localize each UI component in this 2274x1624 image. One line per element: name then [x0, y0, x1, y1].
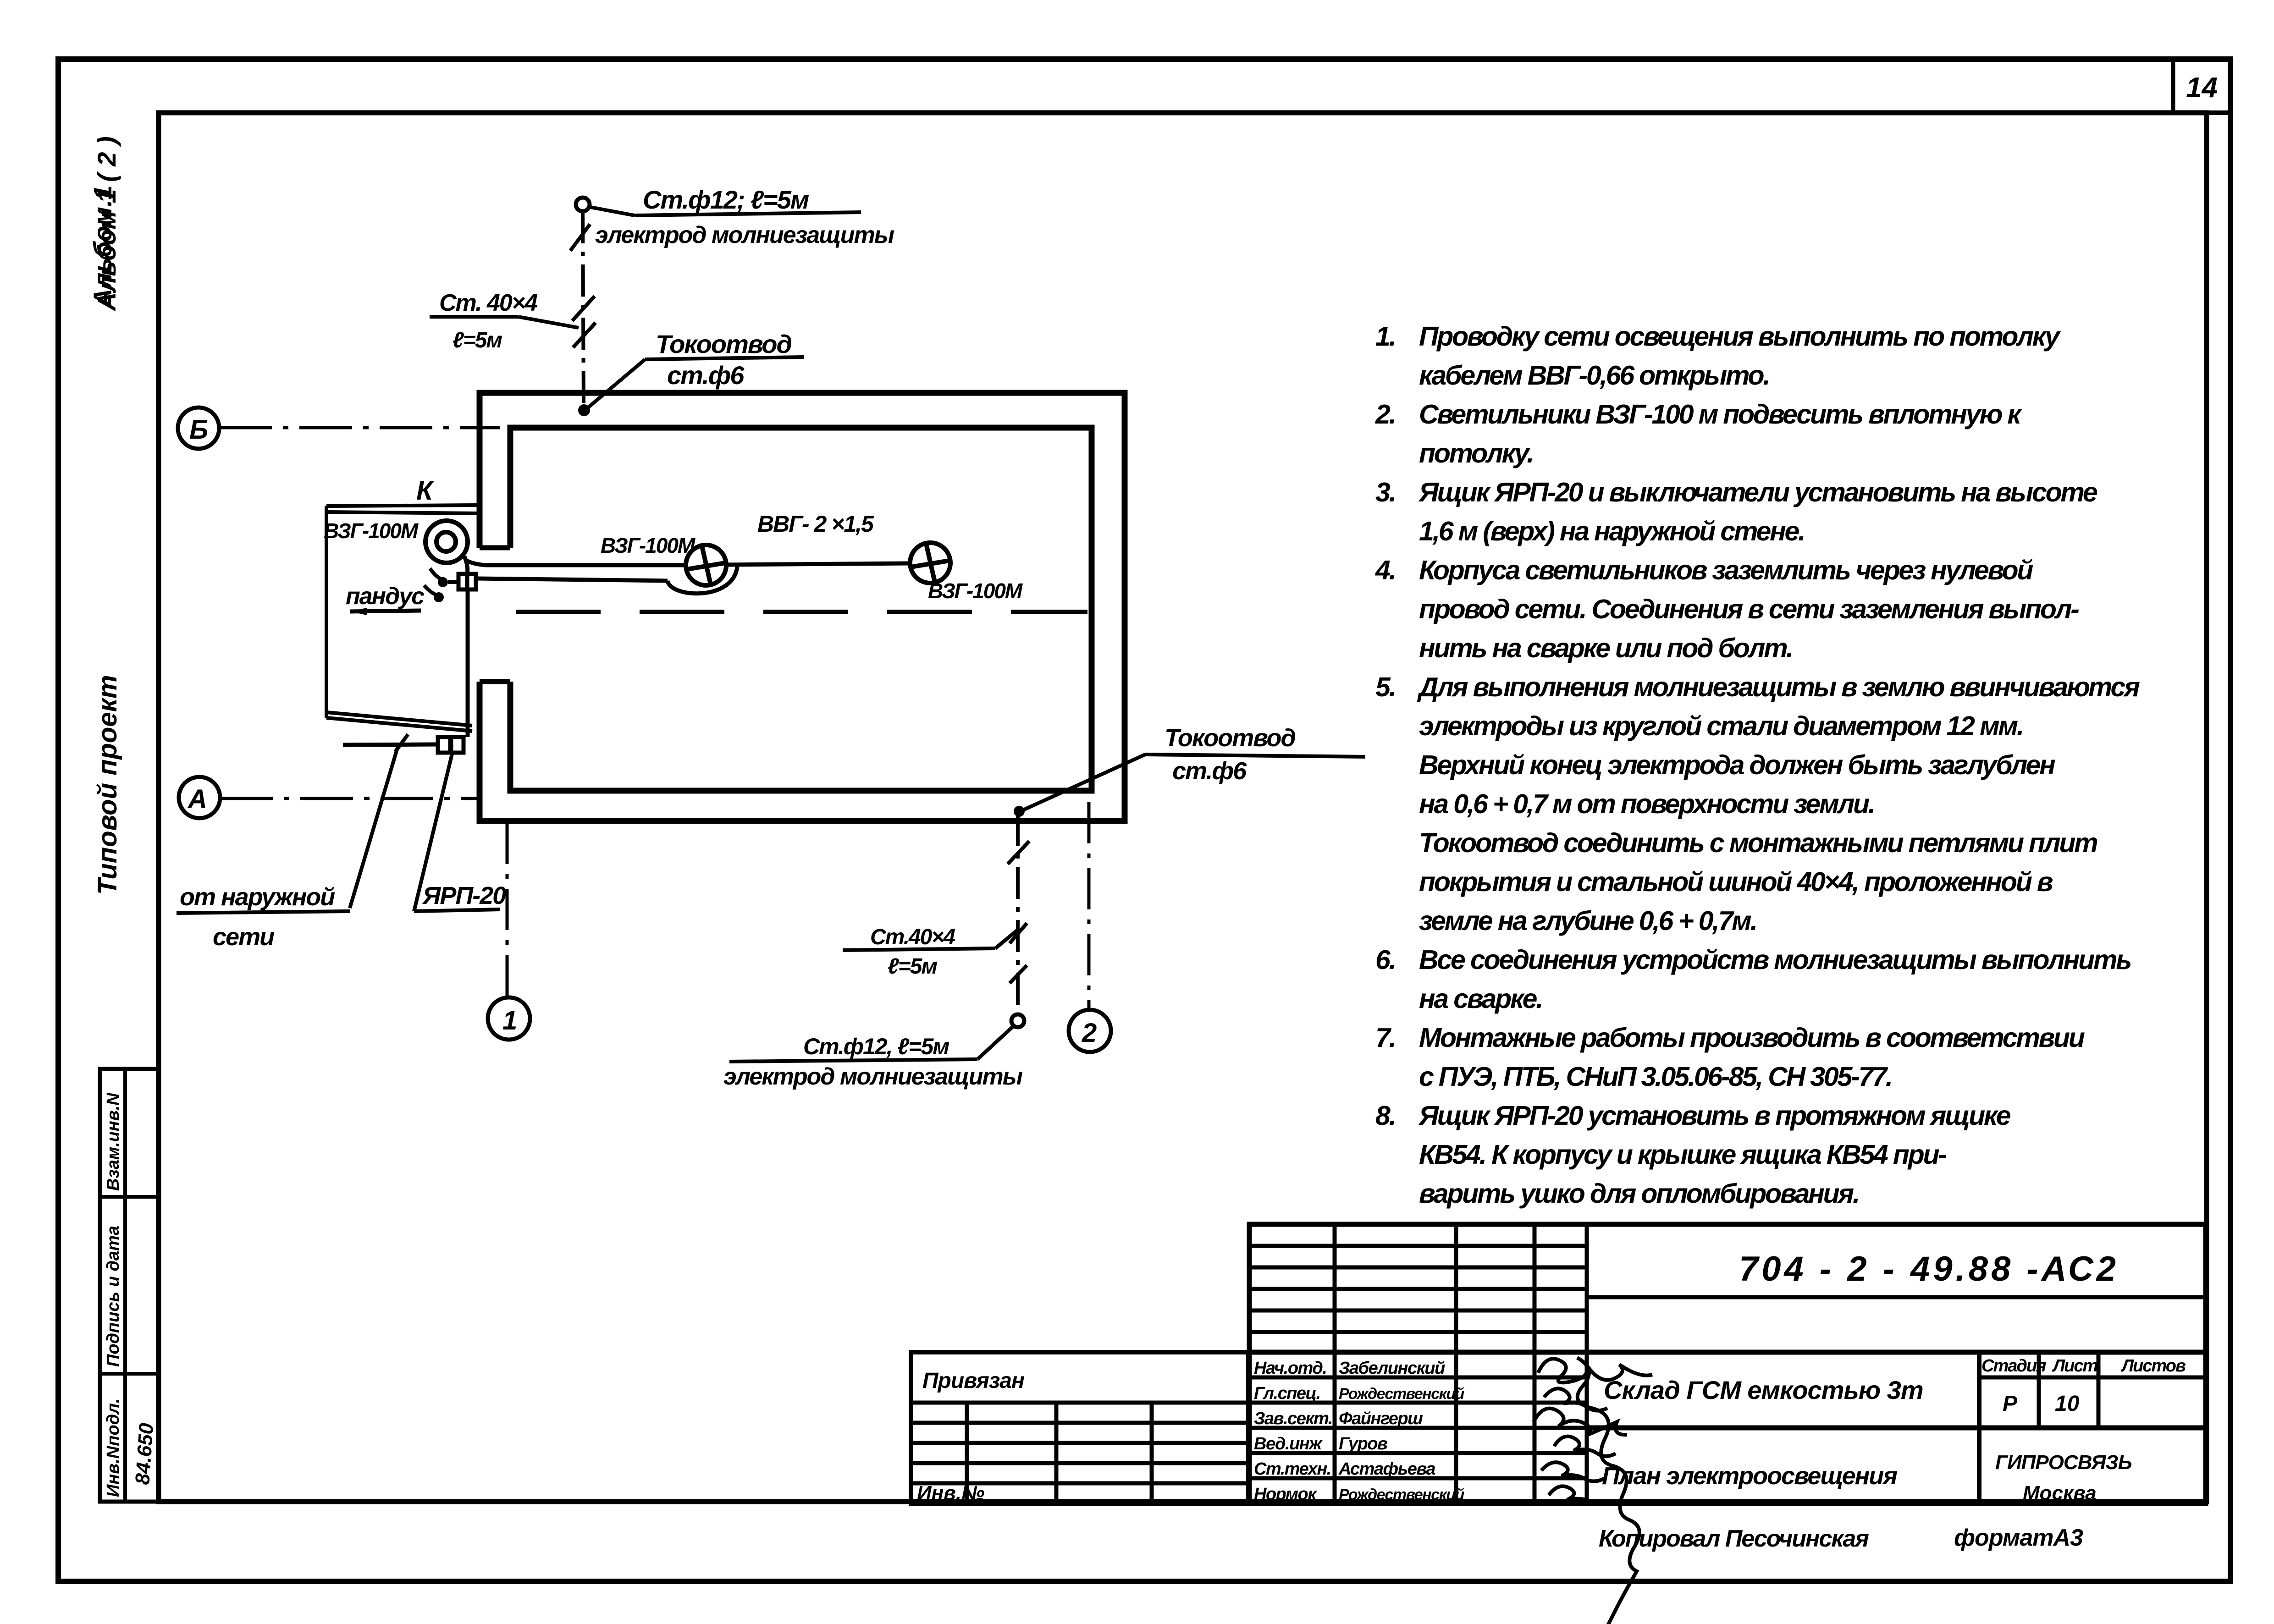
- doc number cell bottom: [1587, 1295, 2206, 1299]
- svg-text:земле на глубине 0,6 + 0,7м.: земле на глубине 0,6 + 0,7м.: [1419, 906, 1756, 936]
- svg-text:Инв.Nподл.: Инв.Nподл.: [104, 1398, 123, 1497]
- svg-text:Б: Б: [189, 415, 207, 445]
- left stamp block: [100, 1069, 159, 1502]
- axis Б line: [219, 426, 500, 429]
- svg-text:Токоотвод соединить с монтажны: Токоотвод соединить с монтажными петлями…: [1419, 828, 2097, 858]
- svg-text:Монтажные работы производить в: Монтажные работы производить в соответст…: [1419, 1023, 2085, 1053]
- svg-text:2.: 2.: [1375, 399, 1395, 429]
- switch dots: [438, 577, 448, 587]
- svg-text:от наружной: от наружной: [180, 883, 335, 911]
- svg-text:Листов: Листов: [2120, 1356, 2186, 1376]
- svg-text:Корпуса светильников заземлить: Корпуса светильников заземлить через нул…: [1419, 555, 2033, 585]
- switch box: [458, 574, 476, 589]
- tick bottom electrode 1: [1008, 841, 1029, 864]
- signatures: [1534, 1358, 1652, 1624]
- upper band bottom: [1249, 1350, 2206, 1355]
- svg-text:14: 14: [2186, 72, 2218, 104]
- svg-text:1: 1: [502, 1006, 516, 1035]
- svg-text:ВВГ- 2 ×1,5: ВВГ- 2 ×1,5: [757, 511, 874, 537]
- svg-text:84.650: 84.650: [131, 1422, 158, 1486]
- svg-text:Инв.№: Инв.№: [917, 1482, 984, 1504]
- svg-text:Рождественский: Рождественский: [1339, 1385, 1465, 1403]
- lamp 1 ВЗГ-100М: [686, 545, 726, 585]
- svg-text:Нормок: Нормок: [1254, 1485, 1317, 1504]
- svg-text:10: 10: [2055, 1392, 2080, 1416]
- svg-text:Ст.40×4: Ст.40×4: [870, 925, 955, 949]
- svg-text:7.: 7.: [1375, 1023, 1395, 1053]
- door jamb cap lower: [480, 679, 510, 684]
- svg-text:Ящик ЯРП-20 и выключатели уста: Ящик ЯРП-20 и выключатели установить на …: [1418, 477, 2097, 507]
- album margin note: [88, 136, 121, 312]
- пандус underline with arrow: [350, 611, 421, 611]
- svg-text:1.: 1.: [1375, 321, 1395, 352]
- svg-text:Для выполнения молниезащиты в: Для выполнения молниезащиты в землю ввин…: [1417, 672, 2140, 702]
- svg-text:6.: 6.: [1375, 945, 1395, 975]
- svg-text:А: А: [187, 784, 206, 814]
- incoming supply line: [343, 744, 438, 745]
- tick on top electrode: [570, 224, 590, 251]
- wire loop under lamp 1: [668, 567, 737, 594]
- wire top run to lamp 1: [466, 560, 685, 565]
- tick bottom electrode 3: [1010, 965, 1027, 983]
- svg-text:ℓ=5м: ℓ=5м: [453, 328, 502, 352]
- tick bottom electrode 2: [1010, 923, 1027, 943]
- bottom electrode conductor line: [1016, 814, 1020, 1014]
- svg-text:Верхний конец электрода должен: Верхний конец электрода должен быть загл…: [1419, 750, 2055, 780]
- right verticals: [1977, 1352, 1981, 1503]
- svg-text:ст.ф6: ст.ф6: [667, 361, 745, 390]
- connection dot on roof: [578, 404, 590, 416]
- svg-text:ЯРП-20: ЯРП-20: [422, 882, 506, 909]
- svg-text:5.: 5.: [1375, 672, 1395, 702]
- axis Б circle: [178, 407, 219, 449]
- svg-text:3.: 3.: [1375, 477, 1395, 507]
- svg-text:ℓ=5м: ℓ=5м: [888, 954, 938, 979]
- svg-text:сети: сети: [213, 923, 275, 951]
- room centerline: [516, 610, 1087, 614]
- wire lamp1 to lamp2: [725, 563, 910, 565]
- svg-text:Ст.ф12; ℓ=5м: Ст.ф12; ℓ=5м: [643, 185, 809, 214]
- revision grid rows: [1249, 1244, 1587, 1248]
- bottom conductor dot on wall: [1014, 806, 1025, 817]
- svg-text:Гуров: Гуров: [1339, 1434, 1387, 1453]
- svg-text:электрод молниезащиты: электрод молниезащиты: [595, 222, 894, 248]
- stage header row line: [1979, 1376, 2206, 1380]
- svg-text:Москва: Москва: [2023, 1482, 2097, 1504]
- svg-text:План электроосвещения: План электроосвещения: [1602, 1462, 1897, 1490]
- svg-text:ВЗГ-100М: ВЗГ-100М: [928, 579, 1023, 603]
- wire lamp to switch box: [464, 556, 468, 574]
- средняя линия титула: [1587, 1426, 2206, 1431]
- tick on top electrode 3: [573, 323, 596, 347]
- svg-text:кабелем ВВГ-0,66 открыто.: кабелем ВВГ-0,66 открыто.: [1419, 360, 1769, 391]
- svg-text:с ПУЭ, ПТБ, СНиП 3.05.06-85, С: с ПУЭ, ПТБ, СНиП 3.05.06-85, СН 305-77.: [1419, 1062, 1892, 1092]
- door jamb cap upper: [480, 545, 510, 551]
- svg-text:электрод молниезащиты: электрод молниезащиты: [723, 1063, 1023, 1090]
- tick on top electrode 2: [572, 296, 595, 321]
- svg-text:Астафьева: Астафьева: [1338, 1459, 1435, 1479]
- name rows: [1249, 1376, 1587, 1380]
- svg-text:Рождественский: Рождественский: [1339, 1486, 1465, 1503]
- svg-text:Альбом.1: Альбом.1: [88, 185, 117, 308]
- svg-text:Взам.инв.N: Взам.инв.N: [104, 1092, 123, 1191]
- ramp left edge: [325, 506, 328, 718]
- privyazan table: [911, 1352, 1248, 1503]
- sheet number cell divider: [2171, 59, 2175, 113]
- svg-text:Токоотвод: Токоотвод: [656, 330, 792, 358]
- svg-text:Зав.сект.: Зав.сект.: [1254, 1409, 1332, 1428]
- svg-text:Файнгерш: Файнгерш: [1339, 1409, 1423, 1428]
- svg-text:покрытия и стальной шиной 40×4: покрытия и стальной шиной 40×4, проложен…: [1419, 867, 2053, 897]
- svg-text:Проводку сети освещения выполн: Проводку сети освещения выполнить по пот…: [1419, 321, 2061, 352]
- lamp 2 ВЗГ-100М: [910, 543, 950, 583]
- svg-text:Вед.инж: Вед.инж: [1254, 1434, 1323, 1453]
- svg-text:1,6 м (верх) на наружной стене: 1,6 м (верх) на наружной стене.: [1419, 516, 1804, 546]
- svg-text:провод сети. Соединения в сет: провод сети. Соединения в сети заземлени…: [1419, 594, 2079, 624]
- svg-text:варить ушко для опломбирования: варить ушко для опломбирования.: [1419, 1178, 1859, 1209]
- svg-text:Стадия: Стадия: [1981, 1356, 2046, 1376]
- svg-text:электроды из круглой стали диа: электроды из круглой стали диаметром 12 …: [1419, 711, 2023, 741]
- building outer wall: [480, 393, 1125, 821]
- svg-text:потолку.: потолку.: [1419, 438, 1533, 468]
- svg-text:ст.ф6: ст.ф6: [1172, 757, 1247, 785]
- wall lamp ВЗГ-100М (double circle): [425, 521, 468, 563]
- svg-text:форматА3: форматА3: [1954, 1525, 2083, 1551]
- svg-text:Лист: Лист: [2052, 1356, 2097, 1376]
- svg-text:пандус: пандус: [346, 583, 425, 610]
- svg-text:8.: 8.: [1375, 1101, 1395, 1131]
- axis 2 line: [1087, 802, 1091, 1010]
- svg-text:ВЗГ-100М: ВЗГ-100М: [324, 519, 419, 543]
- svg-text:Подпись и дата: Подпись и дата: [104, 1226, 123, 1367]
- inner drawing frame: [159, 113, 2207, 1502]
- svg-text:нить на сварке или под болт.: нить на сварке или под болт.: [1419, 633, 1792, 663]
- bottom electrode circle: [1011, 1014, 1024, 1027]
- svg-text:Забелинский: Забелинский: [1339, 1359, 1445, 1378]
- svg-text:ВЗГ-100М: ВЗГ-100М: [601, 534, 696, 557]
- svg-text:Ящик ЯРП-20 установить в прот: Ящик ЯРП-20 установить в протяжном ящике: [1418, 1101, 2011, 1131]
- top band line: [157, 110, 2230, 115]
- svg-text:2: 2: [1082, 1018, 1097, 1048]
- supply entry double box ЯРП-20: [438, 737, 450, 753]
- svg-text:Ст.ф12, ℓ=5м: Ст.ф12, ℓ=5м: [803, 1034, 949, 1059]
- svg-text:Все соединения устройств молни: Все соединения устройств молниезащиты вы…: [1419, 945, 2130, 975]
- axis 1 circle: [488, 997, 530, 1040]
- ramp top edge double line: [326, 505, 480, 506]
- ramp bottom edge double line: [326, 712, 472, 726]
- svg-text:Ст.техн.: Ст.техн.: [1254, 1459, 1331, 1479]
- title block outline: [1249, 1224, 2206, 1503]
- axis А line: [220, 797, 478, 800]
- svg-text:КВ54. К корпусу и крышке ящик: КВ54. К корпусу и крышке ящика КВ54 при-: [1419, 1140, 1946, 1170]
- axis 1 line: [506, 823, 509, 997]
- building inner wall: [510, 428, 1092, 791]
- wire lower run from switch box: [476, 578, 668, 581]
- svg-text:704 - 2 - 49.88 -АС2: 704 - 2 - 49.88 -АС2: [1739, 1250, 2119, 1288]
- svg-text:Гл.спец.: Гл.спец.: [1254, 1384, 1320, 1403]
- revision grid verticals: [1333, 1224, 1337, 1503]
- top electrode conductor line: [583, 211, 584, 405]
- leader от наружной сети with barb: [350, 746, 398, 908]
- svg-text:К: К: [416, 476, 434, 506]
- top lightning electrode circle: [576, 198, 590, 211]
- axis 2 circle: [1069, 1010, 1111, 1052]
- svg-text:Ст. 40×4: Ст. 40×4: [439, 290, 538, 316]
- svg-text:Копировал Песочинская: Копировал Песочинская: [1599, 1525, 1869, 1552]
- name rows text: [1254, 1359, 1465, 1504]
- svg-text:Токоотвод: Токоотвод: [1165, 724, 1296, 752]
- svg-text:на 0,6 + 0,7 м от поверхности: на 0,6 + 0,7 м от поверхности земли.: [1419, 789, 1874, 819]
- svg-text:Типовой проект: Типовой проект: [93, 675, 122, 895]
- svg-text:ГИПРОСВЯЗЬ: ГИПРОСВЯЗЬ: [1995, 1451, 2132, 1474]
- svg-text:Привязан: Привязан: [922, 1369, 1025, 1393]
- svg-text:Р: Р: [2003, 1392, 2018, 1416]
- axis А circle: [179, 777, 220, 818]
- svg-text:4.: 4.: [1375, 555, 1395, 585]
- svg-text:Нач.отд.: Нач.отд.: [1254, 1359, 1326, 1378]
- svg-text:Склад ГСМ емкостью 3т: Склад ГСМ емкостью 3т: [1604, 1376, 1923, 1404]
- svg-text:Светильники ВЗГ-100 м подвесит: Светильники ВЗГ-100 м подвесить вплотную…: [1419, 399, 2022, 429]
- svg-text:на сварке.: на сварке.: [1419, 984, 1542, 1014]
- wire down from switch to supply box: [466, 589, 470, 737]
